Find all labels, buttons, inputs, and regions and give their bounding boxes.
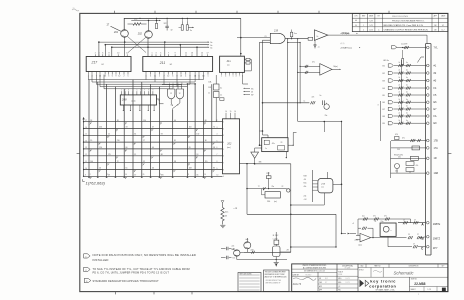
svg-text:217: 217	[91, 61, 98, 65]
IC 218 top supply wire	[240, 18, 242, 56]
svg-text:190: 190	[161, 174, 164, 176]
op-amp U1 input resistor	[308, 37, 313, 40]
wire input to transistor Q201 base	[111, 26, 121, 31]
stub down from 324	[323, 122, 325, 133]
svg-text:B9: B9	[383, 123, 385, 125]
svg-text:47x: 47x	[312, 97, 315, 99]
svg-text:202: 202	[208, 87, 211, 89]
svg-text:PD 6, CO 7YL UNTIL JUMPER FROM: PD 6, CO 7YL UNTIL JUMPER FROM PD 6 TO P…	[93, 272, 170, 275]
ground mark above notice	[275, 264, 277, 267]
matrix short column 216	[215, 98, 217, 122]
svg-text:(4x): (4x)	[134, 18, 138, 20]
svg-text:38: 38	[174, 161, 176, 163]
svg-text:58: 58	[213, 147, 215, 149]
svg-text:3: 3	[378, 105, 379, 107]
svg-text:42x: 42x	[304, 186, 307, 188]
svg-text:93: 93	[161, 133, 163, 135]
IC 217 bottom pin stubs	[87, 72, 89, 75]
svg-text:31: 31	[134, 154, 136, 156]
svg-text:120: 120	[99, 147, 102, 149]
trunk cross stub	[260, 130, 263, 132]
svg-text:B7: B7	[383, 109, 385, 111]
note flag 1	[84, 254, 91, 258]
solid corner marker	[442, 288, 446, 292]
connector row 47 input resistor	[397, 47, 426, 49]
svg-text:250: 250	[99, 127, 102, 129]
wire 208 to gates	[157, 99, 164, 104]
svg-text:1: 1	[233, 76, 234, 78]
svg-text:75: 75	[213, 127, 215, 129]
title block tolerance cell	[292, 268, 337, 270]
logo block key tronic	[409, 277, 411, 291]
scale cell	[337, 275, 358, 277]
svg-text:10: 10	[117, 53, 119, 55]
svg-text:17A: 17A	[434, 147, 439, 150]
svg-text:6: 6	[150, 75, 151, 77]
svg-text:4: 4	[185, 75, 186, 77]
svg-text:6: 6	[102, 53, 103, 55]
routing rail drops from IC bottoms	[87, 75, 89, 80]
IC 208 body	[120, 95, 156, 105]
driver 215 rounded body	[318, 179, 333, 193]
resistor cluster at 182	[181, 25, 183, 30]
wire y42 branch	[288, 42, 300, 44]
svg-text:xxx: xxx	[321, 187, 324, 189]
motor box M	[380, 223, 396, 236]
svg-text:7: 7	[229, 76, 230, 78]
gate outputs merge Y	[171, 99, 173, 106]
svg-text:12: 12	[118, 75, 120, 77]
svg-text:B8: B8	[383, 116, 385, 118]
svg-text:115: 115	[205, 161, 208, 163]
IC 211 bottom pin stubs	[145, 72, 147, 75]
svg-text:2x: 2x	[316, 36, 318, 38]
inverter output wire	[254, 158, 256, 164]
svg-text:4: 4	[236, 76, 237, 78]
resistor stack right of gates	[214, 84, 220, 90]
svg-text:130: 130	[196, 133, 199, 135]
svg-text:FA: FA	[434, 115, 437, 118]
svg-text:66: 66	[126, 147, 128, 149]
svg-text:B2: B2	[383, 73, 385, 75]
revision table row lines	[352, 17, 448, 19]
resistor R 1k vertical	[221, 201, 224, 203]
driver 215 output right	[333, 183, 342, 185]
vertical trunk wire 262	[262, 40, 264, 135]
left vertical wire 380	[380, 101, 382, 141]
svg-text:2: 2	[95, 53, 96, 55]
title block date-by row	[292, 275, 337, 277]
svg-text:H2: H2	[170, 64, 172, 66]
svg-text:M(xx): M(xx)	[334, 66, 339, 68]
svg-text:150: 150	[143, 120, 146, 122]
IC 211 pin numbers top	[151, 54, 153, 56]
trunk junction dots	[259, 144, 261, 146]
flip-flop block 214 body	[262, 138, 288, 152]
op-amp U2 output	[332, 68, 340, 70]
resistor pack top pins	[225, 113, 227, 119]
sign-off grid middle	[337, 279, 358, 281]
input arrowhead bottom-right	[342, 233, 347, 235]
op-amp U3	[360, 233, 371, 241]
op-amp U3 feedback loop	[358, 228, 361, 235]
junction Q202 top	[148, 20, 150, 30]
wire bottom y247 to output section	[291, 246, 336, 248]
svg-text:Schematic: Schematic	[394, 270, 415, 275]
svg-text:5: 5	[128, 75, 129, 77]
svg-text:12: 12	[126, 53, 128, 55]
svg-text:3: 3	[156, 53, 157, 55]
IC 218 no-connect labels	[244, 87, 250, 89]
part number header row	[358, 267, 448, 269]
style row	[358, 276, 448, 278]
IC U218 body	[220, 56, 245, 72]
svg-text:211: 211	[159, 61, 166, 65]
svg-text:STANDARD DESIGNATION APPLIES T: STANDARD DESIGNATION APPLIES THROUGHOUT	[93, 280, 160, 283]
discriminator input wire	[263, 102, 310, 104]
resistor R osc horizontal	[133, 23, 141, 26]
routing rail r2	[92, 81, 195, 83]
svg-text:LED 4x: LED 4x	[383, 60, 389, 62]
svg-text:3x: 3x	[190, 30, 192, 32]
svg-text:7: 7	[239, 76, 240, 78]
svg-text:5: 5	[160, 53, 161, 55]
wire y188 row	[247, 188, 287, 190]
svg-text:55: 55	[90, 140, 92, 142]
wire Q202 emitter down to IC 211	[147, 38, 149, 56]
title block outer frame	[292, 264, 448, 292]
svg-text:4x: 4x	[220, 88, 222, 90]
svg-text:(xxx): (xxx)	[227, 147, 231, 149]
svg-text:57x: 57x	[373, 216, 376, 218]
sheet border frame	[80, 13, 448, 291]
IC 218 right side capacitors	[246, 58, 250, 60]
discriminator resistors	[311, 101, 313, 104]
svg-text:12: 12	[167, 75, 169, 77]
svg-text:3x: 3x	[210, 45, 212, 47]
key tronic logo mark	[360, 280, 365, 288]
svg-text:210: 210	[117, 140, 120, 142]
svg-text:27x: 27x	[384, 216, 387, 218]
capacitor C at 167	[165, 25, 168, 27]
relay bottom ground	[275, 257, 277, 263]
svg-text:B6: B6	[383, 102, 385, 104]
vertical wire 290 long	[290, 164, 292, 253]
AND gate 219	[270, 33, 285, 43]
op-amp U3 inputs	[356, 235, 360, 237]
svg-text:86: 86	[205, 120, 207, 122]
dwg approval cell	[337, 268, 358, 270]
row A output	[398, 222, 426, 224]
bus wire 3c with arrow	[112, 46, 208, 48]
pencil smudge outside top-left corner	[72, 9, 79, 11]
svg-text:18: 18	[117, 120, 119, 122]
svg-text:7: 7	[168, 53, 169, 55]
svg-text:140: 140	[90, 161, 93, 163]
block 214 internals	[264, 140, 269, 144]
svg-text:12: 12	[170, 93, 172, 95]
svg-text:4x6: 4x6	[245, 239, 248, 241]
svg-text:3: 3	[108, 75, 109, 77]
svg-text:(2x2): (2x2)	[132, 101, 136, 103]
long bottom rail y214	[247, 213, 336, 215]
Q5 wires	[236, 256, 238, 259]
driver 215 bottom pin to junction	[291, 193, 325, 205]
relay pill	[273, 246, 281, 257]
svg-text:26: 26	[99, 168, 101, 170]
transistor Q4 bottom	[244, 242, 251, 249]
svg-text:1: 1	[152, 53, 153, 55]
svg-text:57: 57	[134, 174, 136, 176]
driver 215 pin rail	[312, 170, 314, 202]
routing rail r3	[96, 83, 190, 85]
IC U217 body	[86, 57, 131, 72]
gate input rail	[162, 84, 182, 86]
svg-text:9: 9	[116, 75, 117, 77]
svg-text:R28: R28	[304, 176, 307, 178]
zone tick left border	[77, 152, 80, 154]
svg-text:9: 9	[175, 53, 176, 55]
svg-text:35: 35	[196, 174, 198, 176]
IC 208 top pin stubs	[121, 91, 123, 95]
routing rail r5	[104, 88, 173, 90]
wire to diode	[314, 40, 316, 44]
gate 219 input wire B	[263, 39, 271, 41]
row 17B components	[391, 140, 426, 142]
svg-text:R E V I S I O N S: R E V I S I O N S	[392, 16, 408, 18]
resistor row above	[358, 218, 409, 220]
svg-text:13: 13	[180, 75, 182, 77]
schedule box small	[238, 273, 261, 292]
svg-text:25x: 25x	[398, 156, 401, 158]
NAND gate G1 pointing down	[168, 89, 175, 99]
svg-text:7YL: 7YL	[434, 46, 439, 49]
svg-text:81: 81	[174, 140, 176, 142]
svg-text:2x: 2x	[220, 95, 222, 97]
diode on wire 188	[263, 187, 265, 190]
gate 219 output network	[285, 38, 308, 40]
note flag 3	[84, 278, 91, 282]
sheet row	[410, 286, 448, 288]
svg-text:15: 15	[201, 53, 203, 55]
input arrow left	[232, 248, 234, 250]
long vertical 341 to bottom	[341, 122, 343, 234]
block 214 right output	[288, 133, 297, 146]
svg-text:17: 17	[158, 100, 160, 102]
wire Q201 emitter down to IC 217	[124, 37, 126, 56]
op-amp U3 output wire	[371, 237, 407, 239]
IC 217 pin numbers top	[94, 54, 96, 56]
svg-text:215: 215	[320, 183, 325, 185]
svg-text:88: 88	[161, 154, 163, 156]
transistor Q202	[145, 31, 153, 39]
IC U211 body	[143, 57, 213, 72]
svg-text:44: 44	[152, 147, 154, 149]
svg-text:6: 6	[112, 75, 113, 77]
svg-text:8: 8	[109, 53, 110, 55]
svg-text:17: 17	[143, 140, 145, 142]
svg-text:76x: 76x	[325, 115, 328, 117]
svg-text:99: 99	[189, 147, 191, 149]
svg-text:72: 72	[117, 161, 119, 163]
svg-text:+5: +5	[352, 223, 354, 225]
gate 219 input wire C	[260, 41, 271, 43]
small box above relay	[274, 240, 279, 244]
zone tick marks top border	[114, 11, 116, 14]
matrix bottom note (762,663)	[83, 179, 85, 181]
revision table column lines	[359, 13, 361, 31]
discriminator rail y121	[298, 121, 342, 123]
title block right section divider	[357, 264, 359, 292]
svg-text:1AB: 1AB	[434, 172, 439, 175]
svg-text:208: 208	[121, 98, 127, 102]
resistor pack 202 body	[223, 119, 240, 174]
block 214 bottom stub	[285, 152, 287, 158]
op-amp U1 output wire to connector	[328, 35, 427, 44]
bottom rail left	[244, 251, 291, 253]
svg-text:28: 28	[90, 120, 92, 122]
diagonal wire to strip top	[417, 57, 424, 63]
svg-text:2: 2	[159, 75, 160, 77]
spare capacitor A7	[221, 248, 226, 250]
svg-text:22: 22	[108, 133, 110, 135]
diode D1 below U1	[314, 44, 316, 48]
svg-text:+5Y D(xx): +5Y D(xx)	[340, 33, 350, 35]
svg-text:8.2: 8.2	[233, 258, 236, 260]
left rail 390	[390, 141, 392, 178]
svg-text:9x: 9x	[320, 95, 322, 97]
svg-text:201: 201	[113, 31, 119, 34]
junction at 195 rail	[187, 83, 195, 85]
resistor R 1k ground	[220, 224, 225, 226]
transistor Q201	[121, 30, 129, 38]
Q4 wires	[246, 238, 248, 242]
matrix horizontal row wires	[84, 121, 223, 123]
svg-text:24: 24	[196, 154, 198, 156]
svg-text:47x: 47x	[402, 138, 405, 140]
svg-text:W 4(7,8,9): W 4(7,8,9)	[394, 154, 403, 156]
bus vertical rail 401	[401, 60, 403, 123]
svg-text:33: 33	[126, 127, 128, 129]
bus drop wires into IC pins	[98, 42, 100, 56]
svg-text:H2: H2	[102, 64, 104, 66]
inverter triangle down	[251, 152, 259, 158]
svg-text:202: 202	[226, 142, 232, 145]
svg-text:24x: 24x	[304, 195, 307, 197]
IC 208 bottom pin stubs	[122, 105, 124, 111]
svg-text:13: 13	[191, 53, 193, 55]
svg-text:47: 47	[152, 127, 154, 129]
svg-text:B5: B5	[383, 95, 385, 97]
signature scrawl	[293, 277, 316, 280]
zone tick right border	[448, 152, 452, 154]
revision table frame	[352, 13, 448, 31]
svg-text:175: 175	[108, 154, 111, 156]
svg-text:23: 23	[251, 92, 253, 94]
svg-text:9x: 9x	[305, 66, 307, 68]
relay output wire	[280, 251, 291, 253]
svg-text:1(762,663): 1(762,663)	[86, 181, 106, 186]
svg-text:x: x	[391, 230, 392, 232]
svg-text:2x: 2x	[208, 92, 210, 94]
matrix row junction dots on left wire	[83, 121, 84, 122]
svg-text:17: 17	[207, 53, 209, 55]
svg-text:TO NAIL 7YL INSTEAD OF 7YL, CU: TO NAIL 7YL INSTEAD OF 7YL, CUT TRACE AT…	[93, 268, 190, 271]
driver 215 top pin	[327, 172, 329, 179]
vertical trunk wire 259	[259, 42, 261, 145]
svg-text:202: 202	[137, 32, 143, 35]
tiny box below stack	[220, 98, 224, 101]
NAND gate G2 pointing down	[176, 89, 183, 99]
svg-text:61: 61	[126, 168, 128, 170]
svg-text:key tronic: key tronic	[370, 278, 396, 283]
notice block	[264, 270, 290, 292]
svg-text:36: 36	[205, 140, 207, 142]
svg-text:N 2SC: N 2SC	[273, 235, 279, 237]
arrow out right of cluster	[188, 26, 192, 28]
svg-text:322: 322	[164, 23, 167, 25]
row 1R components	[391, 157, 426, 159]
vertical drop 247 to bottom rail	[246, 164, 248, 215]
svg-text:4: 4	[225, 76, 226, 78]
IC 218 bottom pin stubs	[221, 72, 223, 74]
gate output trunk down	[287, 39, 289, 138]
pullup resistor above output	[290, 32, 292, 37]
svg-text:1: 1	[208, 75, 209, 77]
svg-text:22-M88: 22-M88	[414, 282, 425, 286]
svg-text:12: 12	[179, 93, 181, 95]
svg-text:(xx): (xx)	[274, 201, 277, 203]
svg-text:-(4,9): -(4,9)	[340, 43, 345, 45]
svg-text:23x: 23x	[381, 221, 384, 223]
resistor pack output wire	[240, 162, 255, 164]
spare capacitor B	[221, 257, 226, 259]
svg-text:B4: B4	[383, 88, 385, 90]
note flag 2	[84, 267, 91, 271]
wire rail y20 with arrow	[131, 19, 159, 21]
svg-text:32: 32	[171, 30, 173, 32]
oscillator cross-coupling wires	[128, 37, 146, 53]
sign-off grid left	[317, 272, 319, 291]
svg-text:1xx 499: 1xx 499	[401, 44, 407, 46]
matrix left vertical wire	[83, 117, 85, 176]
terminal circle 188	[287, 189, 290, 192]
wire Q201 collector up and top rail to block 218	[124, 18, 241, 29]
block 214 left input stub	[260, 144, 262, 146]
svg-text:22x: 22x	[232, 246, 235, 248]
svg-text:40: 40	[174, 120, 176, 122]
svg-text:1: 1	[221, 76, 222, 78]
vertical feed 300	[299, 43, 301, 103]
matrix diode marks at crossings	[90, 123, 92, 125]
matrix vertical column wires	[88, 80, 90, 178]
svg-text:R2x: R2x	[304, 182, 307, 184]
svg-text:B3: B3	[383, 81, 385, 83]
svg-text:470: 470	[395, 134, 398, 136]
svg-text:3x: 3x	[210, 47, 212, 49]
op-amp U2	[320, 64, 332, 76]
connector strip J1 rails	[425, 44, 427, 255]
vertical feed 297	[297, 39, 299, 122]
discriminator transistor blob	[324, 104, 329, 109]
row 1AB cluster	[391, 172, 426, 174]
svg-text:3: 3	[172, 75, 173, 77]
bus wire 3a with arrow	[99, 41, 208, 43]
bus wire 3b with arrow	[105, 44, 207, 46]
routing rail r4	[100, 86, 187, 88]
svg-text:74: 74	[264, 36, 266, 38]
svg-text:236: 236	[267, 201, 270, 203]
